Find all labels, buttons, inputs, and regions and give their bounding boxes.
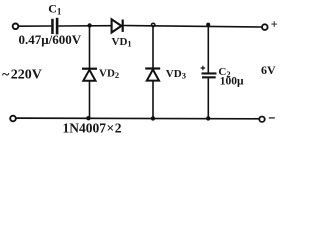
node junction top of VD2 branch bbox=[87, 23, 91, 27]
wire C2 branch upper vertical bbox=[207, 25, 209, 73]
label C2 value 100u bbox=[220, 75, 244, 87]
wire VD2 branch vertical bbox=[89, 26, 91, 119]
label diode part number 1N4007x2 bbox=[63, 121, 122, 136]
terminal output bottom-right bbox=[259, 117, 264, 122]
wire top rail left segment bbox=[19, 25, 52, 27]
label output voltage 6V bbox=[261, 63, 276, 77]
label input voltage ~220V bbox=[2, 67, 42, 82]
svg-text:C1: C1 bbox=[48, 2, 62, 17]
svg-text:0.47μ/600V: 0.47μ/600V bbox=[19, 32, 82, 47]
wire bottom rail bbox=[16, 117, 259, 120]
svg-text:1N4007×2: 1N4007×2 bbox=[63, 121, 122, 136]
svg-text:100μ: 100μ bbox=[220, 75, 244, 87]
terminal input bottom-left bbox=[10, 116, 16, 122]
label VD3 bbox=[166, 68, 186, 81]
diode VD2 bbox=[82, 68, 97, 81]
label VD2 bbox=[99, 68, 119, 81]
wire C2 branch lower vertical bbox=[207, 78, 209, 118]
wire top rail right segment bbox=[124, 26, 262, 28]
label minus polarity bottom-right bbox=[269, 117, 275, 118]
node junction bottom of C2 branch bbox=[206, 116, 210, 120]
svg-text:VD1: VD1 bbox=[112, 36, 132, 49]
capacitor C2 bbox=[202, 72, 217, 78]
terminal input top-left bbox=[13, 24, 19, 30]
node junction bottom of VD3 branch bbox=[151, 116, 155, 120]
label C2 bbox=[218, 66, 230, 79]
node small open junction top of VD3 branch bbox=[152, 23, 155, 26]
svg-text:6V: 6V bbox=[261, 63, 276, 77]
label C1 value 0.47u/600V bbox=[19, 32, 82, 47]
wire top rail middle segment bbox=[58, 25, 111, 27]
svg-text:~220V: ~220V bbox=[2, 67, 42, 82]
label VD1 bbox=[112, 36, 132, 49]
label C1 bbox=[48, 2, 62, 17]
label plus polarity of C2 bbox=[201, 66, 206, 71]
svg-text:VD2: VD2 bbox=[99, 68, 119, 81]
wire VD3 branch vertical bbox=[152, 25, 154, 119]
capacitor C1 bbox=[51, 18, 58, 35]
diode VD3 bbox=[145, 67, 160, 80]
svg-text:+: + bbox=[271, 18, 278, 32]
terminal output top-right bbox=[262, 24, 268, 30]
node junction top of C2 branch bbox=[206, 23, 210, 27]
svg-text:VD3: VD3 bbox=[166, 68, 186, 81]
label plus polarity top-right bbox=[271, 18, 278, 32]
node junction bottom of VD2 branch bbox=[86, 116, 90, 120]
diode VD1 bbox=[112, 19, 124, 32]
